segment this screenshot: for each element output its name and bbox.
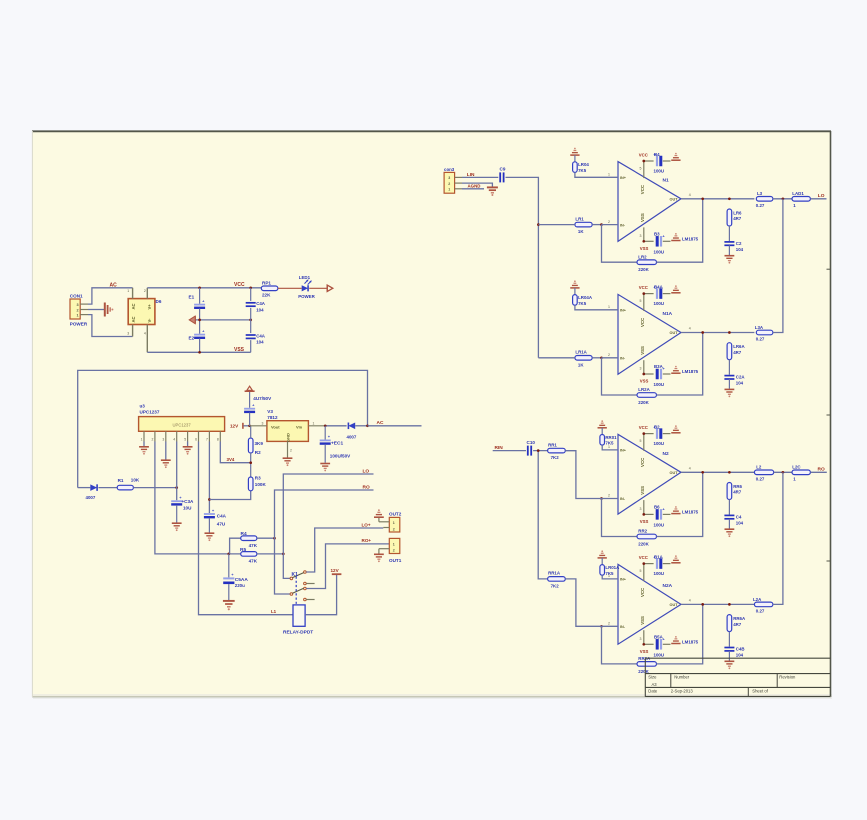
svg-text:R3: R3: [255, 476, 261, 481]
svg-text:L1: L1: [271, 609, 277, 614]
junction output feedback N2A: [701, 603, 704, 606]
junction VCC E1: [198, 286, 201, 289]
svg-text:LR01A: LR01A: [605, 565, 620, 570]
svg-text:RR6: RR6: [733, 484, 742, 489]
wire output N2A: [681, 603, 754, 605]
wire net RO: [275, 490, 374, 594]
wire R4 to RO column: [257, 537, 275, 539]
svg-text:100K: 100K: [255, 482, 267, 487]
resistor RR2A: [637, 662, 657, 667]
svg-text:7: 7: [206, 437, 208, 441]
resistor R2: [248, 426, 253, 477]
wire input row N1: [538, 224, 575, 226]
svg-text:4U7/50V: 4U7/50V: [253, 396, 272, 401]
svg-text:L2C: L2C: [792, 465, 801, 470]
junction VCC C4A: [249, 286, 252, 289]
svg-text:E1: E1: [189, 294, 195, 299]
svg-text:LR1: LR1: [575, 216, 584, 221]
svg-text:VSS: VSS: [234, 347, 245, 353]
svg-text:C4B: C4B: [736, 646, 745, 651]
svg-text:2: 2: [152, 437, 154, 441]
ground C3A: [172, 522, 182, 524]
svg-text:VSS: VSS: [640, 649, 649, 654]
svg-text:IN+: IN+: [620, 449, 627, 453]
wire VCC rail: [147, 287, 261, 289]
svg-text:1: 1: [313, 422, 315, 426]
svg-text:RO: RO: [818, 466, 825, 472]
wire pin2 row to R5: [240, 553, 242, 555]
svg-text:R4: R4: [241, 531, 247, 537]
capacitor B6: [657, 506, 670, 519]
svg-text:LR6A: LR6A: [733, 344, 745, 349]
svg-text:LM1875: LM1875: [682, 369, 699, 374]
svg-text:4R7: 4R7: [733, 490, 742, 495]
svg-text:2: 2: [76, 308, 78, 312]
wire C10 to input column R: [533, 450, 576, 452]
wire LO out: [810, 198, 826, 200]
svg-text:AGND: AGND: [468, 184, 481, 189]
svg-text:Revision: Revision: [779, 674, 796, 679]
wire pin1 to ground: [143, 442, 145, 447]
svg-text:0.27: 0.27: [756, 477, 765, 482]
wire feedback right N2: [657, 472, 703, 536]
svg-text:4: 4: [689, 193, 691, 197]
junction output zobel N2: [728, 471, 731, 474]
capacitor B4: [653, 152, 670, 166]
net node VCC N2A: [644, 563, 654, 565]
svg-text:104: 104: [736, 520, 744, 525]
capacitor EC1: [320, 426, 331, 463]
wire feedback right N1A: [657, 333, 703, 396]
svg-text:7K5: 7K5: [605, 571, 614, 576]
wire RP1 to LED1: [278, 287, 302, 289]
svg-text:3: 3: [162, 437, 164, 441]
svg-text:LO: LO: [363, 468, 370, 474]
relay coil box: [293, 605, 305, 626]
svg-text:RR1A: RR1A: [548, 571, 561, 576]
connector con3: [444, 172, 462, 193]
svg-text:220K: 220K: [638, 542, 649, 547]
wire AC net stub: [368, 425, 422, 427]
svg-text:LR1A: LR1A: [575, 350, 587, 355]
svg-text:RP1: RP1: [262, 280, 271, 285]
svg-text:B2: B2: [654, 424, 660, 429]
svg-text:VCC: VCC: [639, 425, 648, 430]
svg-text:C2A: C2A: [736, 375, 746, 380]
svg-text:C4A: C4A: [217, 513, 227, 518]
junction output zobel N1A: [728, 331, 731, 334]
svg-text:A3: A3: [652, 682, 658, 687]
wire feedback right N1: [657, 199, 703, 262]
svg-text:IN-: IN-: [620, 625, 626, 629]
svg-text:RR2: RR2: [638, 529, 647, 534]
wire con3 pin2 AGND: [462, 183, 492, 187]
svg-text:100U: 100U: [654, 301, 665, 306]
junction R4 RO: [273, 537, 276, 540]
capacitor C5AA: [223, 554, 234, 600]
svg-text:V+: V+: [147, 304, 152, 310]
svg-text:VCC: VCC: [640, 317, 645, 327]
wire feedback N2A: [602, 626, 638, 664]
resistor LR04A: [573, 288, 618, 310]
capacitor B2: [653, 425, 670, 439]
svg-text:7K5: 7K5: [605, 441, 614, 446]
svg-text:B3A: B3A: [654, 364, 664, 369]
svg-text:CON1: CON1: [70, 293, 83, 298]
wire pin5 to ground: [187, 442, 189, 447]
wire feedback N1A: [602, 358, 638, 395]
svg-text:RR01: RR01: [605, 435, 617, 440]
capacitor B1A: [653, 555, 670, 569]
svg-text:+EC1: +EC1: [331, 440, 343, 446]
svg-text:3: 3: [262, 422, 264, 426]
svg-text:3: 3: [640, 367, 642, 371]
power port 12V regulator: [243, 423, 250, 429]
svg-text:LM1875: LM1875: [682, 509, 699, 514]
junction input N2A: [600, 625, 603, 628]
svg-text:1: 1: [141, 437, 143, 441]
svg-text:IN+: IN+: [620, 578, 627, 582]
ground VSS cap N2A: [671, 643, 680, 645]
svg-text:1K: 1K: [578, 229, 584, 234]
ground CON1 pin2 earth: [88, 309, 104, 311]
resistor LR2A: [637, 393, 657, 398]
title block frame: [645, 658, 830, 697]
junction input N1: [537, 223, 540, 226]
svg-text:7K5: 7K5: [578, 168, 587, 173]
svg-text:10U: 10U: [183, 505, 192, 510]
junction R2 R3 3V4: [249, 461, 252, 464]
power arrow mid rail: [194, 316, 196, 324]
svg-text:3K9: 3K9: [255, 441, 264, 446]
svg-text:100U: 100U: [654, 571, 665, 576]
capacitor E1: [194, 288, 205, 320]
svg-text:OUT2: OUT2: [389, 511, 402, 516]
svg-text:104: 104: [736, 652, 744, 657]
svg-text:VSS: VSS: [640, 213, 645, 222]
wire RO out: [810, 471, 826, 473]
wire CON1 pin3 to AC rail: [88, 288, 133, 304]
wire pin8 to R2 R3 junction: [220, 442, 250, 463]
resistor LR6: [727, 209, 732, 226]
svg-text:4: 4: [689, 327, 691, 331]
svg-text:RO+: RO+: [362, 538, 372, 543]
border tick marks: [827, 268, 831, 270]
svg-text:B1A: B1A: [654, 554, 664, 559]
svg-text:2: 2: [608, 494, 610, 498]
svg-text:UPC1237: UPC1237: [173, 422, 192, 427]
ground bias N2: [598, 427, 607, 429]
wire pin4 to C3A: [176, 442, 178, 501]
svg-text:4: 4: [144, 332, 146, 336]
svg-text:VCC: VCC: [639, 285, 648, 290]
capacitor C4A top: [246, 288, 256, 320]
svg-text:IN+: IN+: [620, 176, 627, 180]
resistor L3: [756, 197, 773, 202]
junction outputs L channel: [782, 197, 785, 200]
ground zobel N1: [725, 255, 735, 257]
resistor L2A: [754, 602, 773, 607]
svg-text:u3: u3: [140, 404, 146, 409]
ground VCC cap N1A: [671, 292, 680, 294]
junction input N2: [537, 449, 540, 452]
svg-text:LR04: LR04: [578, 162, 589, 167]
diode D5 4007 left: [78, 484, 118, 491]
svg-text:LO: LO: [818, 193, 825, 199]
svg-text:3: 3: [448, 176, 450, 180]
svg-text:12V: 12V: [230, 424, 239, 429]
op-amp N1: [618, 161, 681, 241]
svg-text:con3: con3: [444, 167, 455, 172]
svg-text:1: 1: [393, 521, 395, 525]
wire contact to RO+: [306, 544, 389, 589]
svg-text:V-: V-: [147, 318, 152, 323]
svg-text:AC: AC: [131, 316, 136, 322]
svg-text:C4: C4: [736, 514, 742, 519]
svg-text:+C3A: +C3A: [182, 499, 195, 504]
svg-text:1: 1: [393, 542, 395, 546]
capacitor C3A: [171, 495, 182, 523]
svg-text:C10: C10: [527, 440, 536, 445]
resistor L3A: [756, 330, 773, 335]
capacitor C4A 47U: [204, 508, 215, 533]
sheet left edge: [31, 131, 33, 697]
net node VSS N1: [644, 240, 654, 242]
wire pin2 N1: [602, 224, 619, 226]
svg-text:AC: AC: [131, 303, 136, 309]
svg-text:RR6A: RR6A: [733, 616, 746, 621]
svg-text:LR2: LR2: [638, 254, 647, 259]
svg-text:LM1875: LM1875: [682, 639, 699, 644]
capacitor E2: [194, 320, 205, 352]
resistor LR04: [573, 155, 618, 177]
wire R1 to pin4 column: [133, 487, 176, 489]
capacitor C2A: [724, 360, 734, 389]
ground bias N2A: [598, 557, 607, 559]
svg-text:B3: B3: [654, 231, 660, 236]
svg-text:1: 1: [608, 173, 610, 177]
wire L3 to join: [773, 198, 792, 200]
power arrow 4U7 top: [245, 390, 255, 392]
regulator V3 7812: [250, 421, 326, 458]
ground bias N1A: [570, 287, 579, 289]
ground VCC cap N1: [671, 159, 680, 161]
svg-text:5: 5: [184, 437, 186, 441]
ground AGND earth: [487, 187, 498, 196]
svg-text:LED1: LED1: [299, 275, 311, 280]
svg-text:L3: L3: [757, 191, 763, 196]
wire L2 to join: [774, 471, 792, 473]
bridge rectifier D6: [128, 288, 155, 353]
svg-text:2: 2: [608, 353, 610, 357]
svg-text:K1: K1: [292, 572, 299, 578]
ground zobel N2A: [725, 660, 735, 662]
svg-text:8: 8: [217, 437, 219, 441]
svg-text:10K: 10K: [131, 477, 140, 482]
resistor RR1A: [548, 577, 566, 582]
wire LIN to C9: [462, 176, 498, 178]
junction AC loop: [366, 424, 369, 427]
capacitor C4: [724, 500, 734, 529]
svg-text:104: 104: [256, 340, 264, 345]
wire pin7 to R3 bottom: [209, 491, 250, 500]
svg-text:L2A: L2A: [753, 597, 762, 602]
svg-text:100U: 100U: [654, 652, 665, 657]
svg-text:7K2: 7K2: [551, 455, 560, 460]
svg-text:3: 3: [127, 332, 129, 336]
svg-text:VSS: VSS: [640, 486, 645, 495]
svg-text:C2: C2: [736, 241, 742, 246]
svg-text:VCC: VCC: [640, 457, 645, 467]
svg-text:2: 2: [448, 182, 450, 186]
junction VSS E column: [198, 351, 201, 354]
svg-text:100U: 100U: [654, 522, 665, 527]
resistor R5: [241, 552, 257, 557]
svg-text:LO+: LO+: [362, 522, 371, 527]
svg-text:4: 4: [173, 437, 175, 441]
svg-text:VCC: VCC: [640, 587, 645, 597]
svg-text:VSS: VSS: [640, 246, 649, 251]
svg-text:6: 6: [195, 437, 197, 441]
relay K1 contacts: [290, 571, 315, 601]
svg-text:4007: 4007: [347, 435, 357, 440]
wire L3A join to L channel: [773, 199, 783, 333]
svg-text:LAD1: LAD1: [792, 191, 804, 196]
junction mid C4A column: [249, 319, 252, 322]
resistor RP1: [261, 286, 278, 291]
resistor LR6A: [727, 343, 732, 360]
net node VCC N2: [644, 433, 654, 435]
svg-text:GND: GND: [286, 433, 291, 442]
resistor LR1A: [575, 356, 602, 361]
svg-text:4R7: 4R7: [733, 350, 742, 355]
svg-text:Vin: Vin: [296, 424, 303, 429]
svg-text:B6: B6: [654, 504, 660, 509]
svg-text:L3A: L3A: [755, 325, 764, 330]
resistor RR6: [727, 483, 732, 500]
svg-text:7812: 7812: [267, 415, 278, 420]
svg-text:C4A: C4A: [256, 333, 266, 338]
capacitor C4B: [724, 632, 734, 661]
junction output zobel N1: [728, 197, 731, 200]
resistor R4: [230, 536, 257, 554]
wire L2A join to R channel: [773, 472, 783, 604]
svg-text:4: 4: [689, 467, 691, 471]
capacitor C9: [499, 172, 501, 182]
svg-text:5: 5: [640, 167, 642, 171]
resistor LAD1: [792, 197, 810, 202]
svg-text:3: 3: [640, 234, 642, 238]
svg-text:VCC: VCC: [640, 184, 645, 194]
svg-text:0.27: 0.27: [756, 337, 765, 342]
svg-text:2: 2: [290, 448, 292, 452]
svg-text:Sheet of: Sheet of: [752, 689, 768, 694]
svg-text:3V4: 3V4: [227, 457, 235, 462]
ground OUT1: [374, 553, 384, 555]
junction EC1: [324, 424, 327, 427]
svg-text:100U: 100U: [654, 249, 665, 254]
svg-text:0.27: 0.27: [756, 608, 765, 613]
junction input N1A: [600, 356, 603, 359]
svg-text:LR04A: LR04A: [578, 295, 593, 300]
wire RR1A staircase: [565, 579, 601, 626]
svg-text:LR2A: LR2A: [638, 387, 650, 392]
svg-text:3: 3: [640, 507, 642, 511]
capacitor B3A: [657, 366, 670, 379]
capacitor B5A: [657, 636, 670, 649]
svg-text:Date: Date: [648, 689, 658, 694]
power arrow VCC out: [326, 285, 328, 291]
svg-text:1: 1: [448, 188, 450, 192]
resistor R1: [117, 485, 133, 490]
op-amp N1A: [618, 294, 681, 375]
svg-text:L2: L2: [756, 465, 762, 470]
svg-text:47K: 47K: [249, 559, 258, 564]
svg-text:R2: R2: [255, 450, 261, 455]
svg-text:D6: D6: [156, 299, 162, 304]
svg-text:3: 3: [76, 303, 78, 307]
svg-text:4R7: 4R7: [733, 216, 742, 221]
connector CON1: [70, 299, 88, 319]
resistor RR6A: [727, 615, 732, 632]
svg-text:Vout: Vout: [271, 424, 280, 429]
ground V3 GND: [283, 457, 293, 459]
wire output N2: [681, 471, 754, 473]
wire VSS rail: [147, 351, 250, 353]
resistor LR1: [575, 222, 602, 227]
wire feedback right N2A: [657, 604, 703, 664]
svg-text:7K5: 7K5: [578, 301, 587, 306]
wire output N1A: [681, 332, 754, 334]
svg-text:104: 104: [736, 247, 744, 252]
svg-text:2: 2: [608, 622, 610, 626]
resistor L2C: [792, 470, 810, 475]
ground C5AA: [223, 600, 235, 602]
svg-text:IN-: IN-: [620, 357, 626, 361]
svg-text:100U: 100U: [654, 169, 665, 174]
svg-text:N1: N1: [663, 177, 669, 183]
net node VCC N1A: [644, 293, 654, 295]
resistor RR1: [548, 448, 566, 453]
wire RR1 staircase: [565, 451, 601, 499]
svg-text:3: 3: [640, 637, 642, 641]
svg-text:UPC1237: UPC1237: [140, 410, 160, 415]
svg-text:4R7: 4R7: [733, 622, 742, 627]
LED LED1: [302, 279, 312, 291]
junction 12V node: [248, 424, 251, 427]
svg-text:RR1: RR1: [548, 442, 557, 447]
svg-text:C4A: C4A: [256, 301, 266, 306]
ground zobel N1A: [725, 388, 735, 390]
resistor R3: [248, 477, 253, 491]
svg-text:R1: R1: [118, 478, 124, 483]
junction input N2: [600, 497, 603, 500]
resistor LR01A: [600, 558, 618, 579]
connector OUT1: [379, 538, 400, 553]
capacitor 4U7 50V: [244, 392, 255, 426]
relay actuator dashed: [295, 577, 297, 605]
svg-text:220K: 220K: [638, 400, 649, 405]
svg-text:22K: 22K: [262, 293, 271, 298]
svg-text:VCC: VCC: [639, 555, 648, 560]
wire output N1: [681, 198, 754, 200]
svg-text:B4A: B4A: [654, 284, 664, 289]
wire pin2 down to R5 row: [155, 442, 241, 554]
svg-text:2-Sep-2013: 2-Sep-2013: [671, 689, 694, 694]
svg-text:V3: V3: [267, 409, 273, 414]
ground VCC cap N2A: [671, 562, 680, 564]
ground U3 pin3: [161, 459, 171, 461]
